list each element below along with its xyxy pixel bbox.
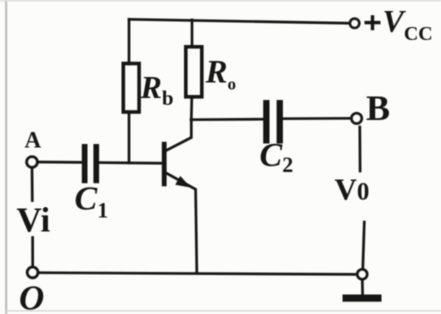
wire B to V0 upper segment [358, 127, 361, 171]
svg-text:B: B [366, 88, 390, 128]
faint scan line top edge [0, 0, 441, 1]
capacitor C2 plates [263, 100, 283, 144]
transistor Q1 base bar [162, 142, 167, 187]
terminal B open circle [351, 113, 361, 123]
faint scan line bottom edge [5, 310, 441, 311]
transistor Q1 collector lead [166, 120, 191, 151]
wire Rb top lead [128, 19, 131, 64]
svg-text:Vi: Vi [17, 201, 51, 240]
terminal +Vcc open circle [350, 19, 359, 28]
svg-text:A: A [25, 128, 42, 153]
wire Rb bottom lead [128, 112, 131, 163]
resistor Ro [186, 47, 202, 97]
wire C2 to B terminal [283, 117, 351, 120]
terminal A open circle [27, 157, 38, 168]
transistor Q1 emitter lead [166, 173, 197, 272]
capacitor C1 plates [82, 144, 99, 183]
wire V0 to ground node lower segment [363, 222, 365, 269]
wire A terminal to C1 [38, 161, 82, 164]
wire Ro bottom lead [190, 97, 193, 120]
wire C1 to base [99, 161, 163, 164]
svg-text:O: O [19, 279, 44, 314]
label + of +Vcc [365, 15, 381, 30]
wire ground stem [361, 280, 364, 294]
resistor Rb [123, 64, 139, 113]
node ground junction open circle [357, 269, 367, 279]
ground bar [343, 295, 382, 302]
wire Vi to O lower segment [31, 238, 34, 268]
wire top rail to +Vcc [129, 19, 350, 23]
wire A to Vi upper segment [31, 168, 34, 201]
wire collector node to C2 [191, 118, 264, 121]
wire bottom rail [38, 273, 357, 275]
page edge line (scan artifact border) [5, 0, 7, 314]
transistor Q1 emitter arrow [175, 176, 191, 188]
terminal O open circle [27, 267, 38, 278]
wire Ro top lead [191, 20, 194, 47]
